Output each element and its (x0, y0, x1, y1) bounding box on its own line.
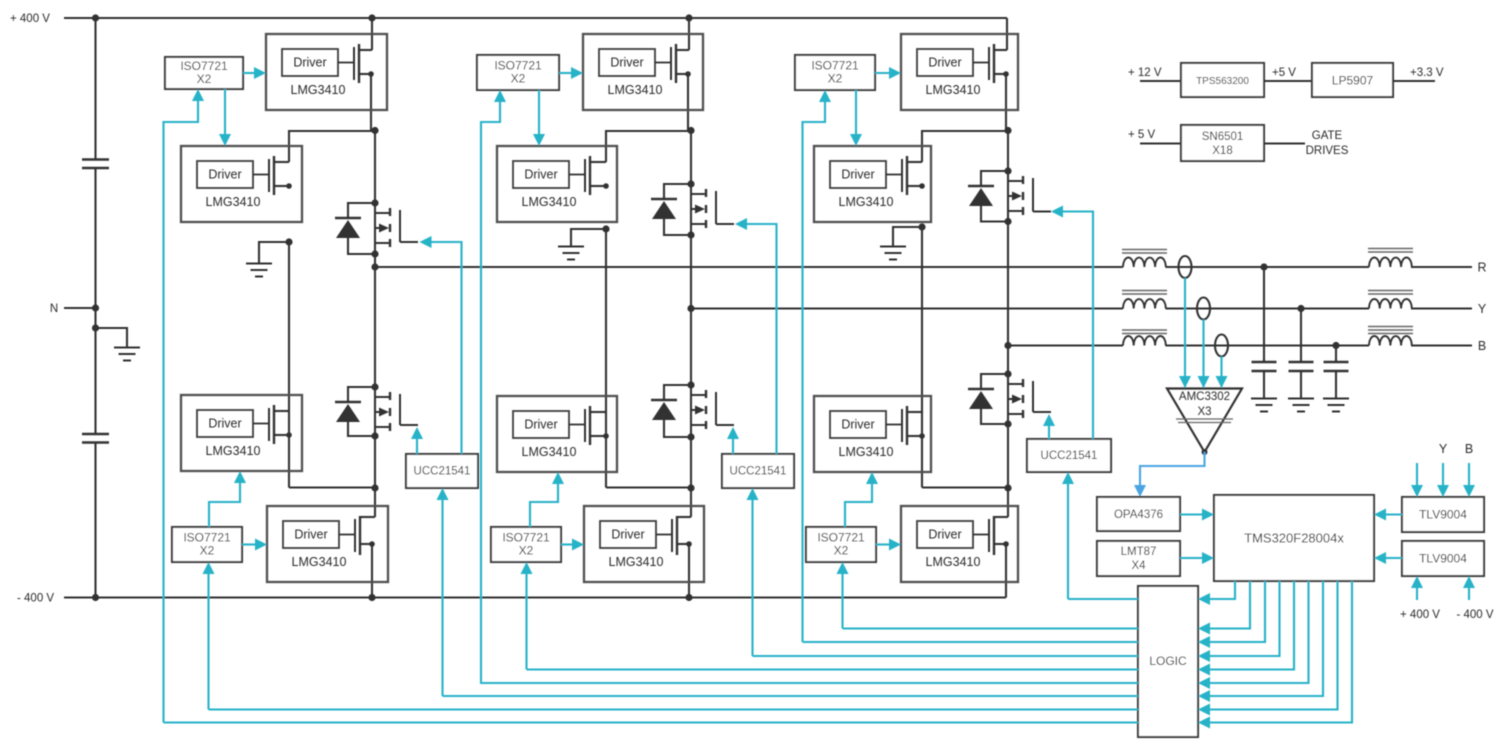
svg-text:AMC3302: AMC3302 (1179, 391, 1230, 403)
svg-text:ISO7721: ISO7721 (183, 531, 231, 545)
wire leg2 LMG2 drain lead (590, 161, 606, 163)
wire SN6501 to gate drives (1264, 142, 1305, 144)
wire leg1 LMG1 source lead (359, 73, 371, 75)
wire leg3 phase node to lower switch (1007, 346, 1009, 375)
digital isolator ISO7721 X2 (leg 3) (806, 527, 876, 562)
wire LOGIC to ISO7721-bottom (leg 2) (525, 571, 527, 670)
junction leg2 LMG3 source corner (603, 433, 609, 439)
svg-text:ISO7721: ISO7721 (494, 59, 542, 73)
junction leg1 LMG2 source corner (286, 183, 292, 189)
wire ISO7721-bottom output to LMG4 (leg 3) (876, 543, 892, 545)
wire leg1 ground stub (259, 242, 289, 264)
wire UCC21541 to upper gate (leg 2) (744, 224, 777, 454)
wire leg2 upper switch to phase node (690, 235, 692, 309)
current sensor CT1 (phase R) (1179, 256, 1192, 278)
svg-text:Driver: Driver (294, 528, 327, 542)
svg-text:X4: X4 (1131, 560, 1146, 572)
wire TLV9004-bottom to MCU (1382, 557, 1402, 559)
wire leg3 LMG3 source lead (907, 435, 922, 437)
gate driver U LMG3410 (high-side) leg 1 - outer box (266, 34, 387, 110)
GaN FET Q (upper) leg 1 (389, 208, 391, 216)
svg-text:+3.3 V: +3.3 V (1410, 67, 1444, 79)
junction leg1 LMG3 source corner (286, 432, 292, 438)
wire CT2 to AMC3302 (1202, 320, 1204, 388)
svg-text:+ 400 V: + 400 V (10, 13, 50, 25)
svg-text:- 400 V: - 400 V (1456, 609, 1493, 621)
wire UCC21541 to upper gate (leg 1) (429, 242, 462, 454)
wire leg2 LMG1 source lead (676, 73, 688, 75)
svg-text:LMG3410: LMG3410 (522, 445, 577, 459)
wire leg3 ground stub (893, 227, 922, 247)
junction leg1 half-bridge upper node (371, 127, 378, 134)
wire LOGIC gate bus to UCC21541 leg1 (443, 695, 1139, 697)
wire leg3 LMG1 source lead (994, 73, 1006, 75)
wire phase Y line (691, 307, 1123, 309)
wire -400V bus (64, 596, 1006, 598)
transformer driver U SN6501 X18 (1181, 125, 1264, 161)
wire leg2 mid rail (605, 229, 607, 488)
wire ISO7721-top output to LMG1 (leg 1) (243, 72, 257, 74)
wire UCC21541 to upper gate (leg 3) (1060, 212, 1093, 440)
capacitor C_dc1 (top DC-link) (82, 158, 109, 160)
anti-parallel diode D (upper) leg 1 (348, 203, 375, 218)
svg-text:OPA4376: OPA4376 (1114, 509, 1163, 521)
junction filter cap x=1264 (1260, 263, 1267, 270)
svg-text:UCC21541: UCC21541 (730, 466, 787, 478)
wire N ground stub (96, 328, 128, 348)
junction node (lower switch source) leg 2 (687, 433, 694, 440)
LMG3410 internal Driver block (513, 161, 569, 188)
inductor L3b (phase B output) (1369, 336, 1412, 346)
regulator U LP5907 (1312, 63, 1393, 97)
junction node (upper switch source) leg 3 (1004, 218, 1011, 225)
ground (filter cap x=1264) (1251, 398, 1277, 400)
junction node (upper switch source) leg 1 (371, 250, 378, 257)
svg-text:Driver: Driver (610, 56, 643, 70)
wire LOGIC to UCC21541 (leg 1) (441, 497, 443, 696)
capacitor C filter at x=1301 (1300, 309, 1302, 362)
wire TPS563200 to LP5907 (1264, 80, 1312, 82)
junction leg2 phase node (687, 305, 694, 312)
wire +12V input (1140, 80, 1181, 82)
junction leg2 LMG1 source corner (685, 71, 691, 77)
wire leg2 LMG1 drain to +400V bus (688, 18, 690, 50)
svg-text:B: B (1465, 442, 1473, 456)
gate driver U LMG3410 (low-side) leg 3 - outer box (901, 506, 1018, 582)
svg-text:Y: Y (1478, 302, 1487, 316)
svg-text:LMG3410: LMG3410 (839, 195, 894, 209)
svg-text:X2: X2 (197, 72, 212, 86)
junction node (lower switch drain) leg 1 (371, 383, 378, 390)
ground (neutral) (114, 347, 140, 349)
gate driver U LMG3410 (low-side) leg 2 - outer box (584, 506, 704, 582)
wire leg1 LMG1 source down (370, 74, 372, 131)
wire +5V input to SN6501 (1140, 142, 1181, 144)
GaN FET Q (lower) leg 1 (389, 392, 391, 400)
wire LOGIC gate bus to ISO7721-bottom leg3 (843, 627, 1139, 629)
LMG3410 internal GaN FET symbol (253, 174, 269, 176)
ground (leg 1 mid) (246, 263, 272, 265)
wire ISO7721-bottom output up to LMG3 (leg 2) (530, 481, 558, 527)
wire leg1 LMG2 source lead (274, 185, 289, 187)
svg-text:LMG3410: LMG3410 (291, 83, 346, 97)
junction leg2 mid-rail ground tap (602, 225, 609, 232)
wire -400V sense into TLV9004 (1468, 584, 1470, 600)
svg-text:DRIVES: DRIVES (1306, 145, 1349, 157)
ground (filter cap x=1336) (1323, 398, 1349, 400)
GaN FET Q (upper) leg 3 (1022, 176, 1024, 184)
wire B sense into TLV9004 (1468, 463, 1470, 489)
wire LOGIC to UCC21541 (leg 3) (1067, 481, 1069, 599)
wire leg2 LMG1 source down (687, 74, 689, 131)
anti-parallel diode D (upper) leg 3 (981, 171, 1008, 186)
wire LOGIC gate bus to ISO7721-top leg1 (164, 721, 1139, 723)
gate driver U LMG3410 (lower mid) leg 2 - outer box (497, 396, 617, 472)
wire leg3 LMG1 drain to +400V bus (1006, 18, 1008, 50)
wire leg1 lower switch to lower node (374, 436, 376, 488)
wire LOGIC gate bus to ISO7721-bottom leg1 (209, 708, 1139, 710)
svg-text:LMG3410: LMG3410 (926, 555, 981, 569)
wire LOGIC gate bus to ISO7721-bottom leg2 (527, 668, 1139, 670)
LMG3410 internal GaN FET symbol (253, 423, 269, 425)
gate driver U LMG3410 (high-side) leg 2 - outer box (583, 34, 703, 110)
svg-text:Driver: Driver (208, 417, 241, 431)
svg-text:TLV9004: TLV9004 (1419, 552, 1467, 566)
anti-parallel diode D (lower) leg 1 (348, 387, 375, 402)
wire leg2 LMG3 drain lead (590, 411, 606, 413)
inductor L2b (phase Y output) (1369, 299, 1412, 308)
wire LOGIC gate bus to ISO7721-top leg2 (480, 682, 1138, 684)
svg-text:Driver: Driver (208, 168, 241, 182)
wire CT1 to AMC3302 (1184, 278, 1186, 387)
junction node (lower switch drain) leg 2 (687, 381, 694, 388)
junction leg1 mid-rail ground tap (285, 238, 292, 245)
anti-parallel diode D (lower) leg 2 (664, 385, 691, 400)
LMG3410 internal GaN FET symbol (886, 424, 902, 426)
svg-text:Driver: Driver (841, 418, 874, 432)
svg-text:LMG3410: LMG3410 (926, 83, 981, 97)
svg-text:ISO7721: ISO7721 (502, 531, 550, 545)
digital isolator ISO7721 X2 (leg 2) (477, 55, 559, 90)
svg-text:LMG3410: LMG3410 (522, 195, 577, 209)
anti-parallel diode D (upper) leg 2 (664, 184, 691, 199)
junction leg3 phase node (1004, 342, 1011, 349)
wire R sense into TLV9004 (1416, 463, 1418, 489)
junction N-ground tap (92, 324, 99, 331)
junction leg3 lower node (1004, 484, 1011, 491)
junction node (lower switch source) leg 3 (1004, 420, 1011, 427)
wire N stub (64, 307, 96, 309)
svg-text:X18: X18 (1212, 145, 1232, 157)
wire CT3 to AMC3302 (1220, 357, 1222, 388)
anti-parallel diode D (lower) leg 3 (981, 374, 1008, 389)
wire LOGIC to ISO7721-bottom (leg 3) (841, 571, 843, 629)
svg-text:X2: X2 (828, 72, 843, 86)
wire leg2 upper node to upper switch (690, 131, 692, 185)
junction leg2 LMG2 source corner (603, 183, 609, 189)
junction leg2 half-bridge upper node (687, 127, 694, 134)
inductor L1b (phase R output) (1369, 258, 1412, 268)
regulator U TPS563200 (1181, 63, 1264, 97)
wire DC-link left rail (94, 18, 96, 159)
wire +400V bus (64, 17, 1007, 19)
wire OPA4376 to MCU (1180, 513, 1206, 515)
LMG3410 internal Driver block (830, 411, 886, 438)
junction leg2 +400V (685, 14, 692, 21)
wire leg1 LMG1 drain lead (359, 49, 372, 51)
gate driver U UCC21541 (leg 3) (1027, 439, 1111, 472)
junction leg1 phase node (371, 263, 378, 270)
wire LOGIC to ISO7721-bottom (leg 1) (207, 571, 209, 710)
wire ISO7721-top output down to LMG2 (leg 1) (224, 89, 226, 136)
wire leg3 LMG2 source lead (907, 185, 922, 187)
svg-text:B: B (1478, 339, 1486, 353)
ground (leg 3 mid) (880, 246, 906, 248)
wire (lower) switch drain-source rail leg 3 (1007, 374, 1009, 424)
ground (filter cap x=1301) (1288, 398, 1314, 400)
junction node (upper switch source) leg 2 (687, 231, 694, 238)
GaN FET Q (lower) leg 3 (1022, 379, 1024, 387)
LMG3410 internal GaN FET symbol (886, 174, 902, 176)
wire phase B line (1008, 344, 1123, 346)
wire (upper) switch drain-source rail leg 3 (1007, 171, 1009, 222)
LMG3410 internal Driver block (917, 49, 973, 76)
wire MCU PWM 4 to LOGIC (1207, 581, 1280, 656)
svg-text:LP5907: LP5907 (1332, 74, 1374, 88)
wire (upper) switch drain-source rail leg 2 (690, 184, 692, 235)
wire leg2 LMG1 drain lead (676, 49, 689, 51)
wire LOGIC to ISO7721-top (leg 1) (164, 98, 199, 723)
wire leg2 LMG4 source to -400V bus (677, 543, 689, 545)
LMG3410 internal Driver block (599, 49, 655, 76)
svg-text:SN6501: SN6501 (1202, 131, 1244, 143)
wire leg1 upper node to upper switch (374, 131, 376, 204)
LMG3410 internal GaN FET symbol (973, 534, 989, 536)
junction leg3 half-bridge upper node (1004, 127, 1011, 134)
svg-text:R: R (1477, 261, 1486, 275)
svg-text:N: N (50, 303, 58, 315)
junction filter cap x=1336 (1332, 342, 1339, 349)
op-amp U TLV9004 (bottom) (1402, 541, 1484, 576)
LMG3410 internal Driver block (197, 410, 253, 437)
svg-text:Y: Y (1439, 442, 1448, 456)
junction -400V/rail (92, 594, 99, 601)
LMG3410 internal Driver block (282, 49, 338, 76)
LMG3410 internal Driver block (830, 161, 886, 188)
op-amp U TLV9004 (top) (1402, 497, 1484, 532)
digital isolator ISO7721 X2 (leg 2) (491, 527, 561, 562)
LMG3410 internal GaN FET symbol (655, 62, 671, 64)
svg-text:LMG3410: LMG3410 (609, 555, 664, 569)
GaN FET Q (upper) leg 2 (705, 189, 707, 197)
junction node (lower switch source) leg 1 (371, 432, 378, 439)
digital isolator ISO7721 X2 (leg 1) (165, 57, 243, 89)
junction leg3 LMG3 source corner (919, 433, 925, 439)
wire leg3 LMG2 drain lead (907, 161, 922, 163)
wire leg1 LMG4 source to -400V bus (360, 543, 372, 545)
wire ISO7721-top output down to LMG2 (leg 3) (855, 90, 857, 136)
svg-text:X2: X2 (834, 544, 849, 558)
wire leg2 LMG3 source lead (590, 435, 606, 437)
wire MCU PWM 6 to LOGIC (1207, 581, 1309, 683)
svg-text:LMG3410: LMG3410 (839, 445, 894, 459)
wire LMT87 to MCU (1180, 557, 1206, 559)
svg-text:Driver: Driver (524, 168, 557, 182)
wire LOGIC gate bus to UCC21541 leg2 (753, 655, 1139, 657)
junction leg3 LMG1 source corner (1003, 71, 1009, 77)
wire UCC21541 to lower gate (leg 3) (1048, 423, 1050, 439)
op-amp U OPA4376 (1097, 497, 1180, 531)
current sensor CT3 (phase B) (1215, 335, 1228, 357)
inductor L3a (phase B filter) (1123, 336, 1166, 346)
svg-text:LMG3410: LMG3410 (206, 195, 261, 209)
svg-text:GATE: GATE (1312, 130, 1343, 142)
wire UCC21541 to lower gate (leg 2) (732, 436, 734, 454)
logic block LOGIC (1138, 586, 1198, 737)
LMG3410 internal GaN FET symbol (973, 62, 989, 64)
GaN FET Q (lower) leg 2 (705, 390, 707, 398)
wire ISO7721-bottom output to LMG4 (leg 2) (561, 543, 575, 545)
junction leg3 LMG2 source corner (919, 183, 925, 189)
svg-text:Driver: Driver (611, 528, 644, 542)
gate driver U LMG3410 (upper mid) leg 2 - outer box (497, 146, 617, 222)
wire UCC21541 to lower gate (leg 1) (416, 436, 418, 454)
wire leg1 LMG3 source lead (274, 434, 289, 436)
wire leg2 LMG2 source lead (590, 185, 606, 187)
svg-text:+ 5 V: + 5 V (1128, 129, 1156, 141)
wire ISO7721-top output down to LMG2 (leg 2) (538, 90, 540, 136)
wire leg1 LMG4 drain riser (374, 488, 376, 517)
wire MCU PWM 5 to LOGIC (1207, 581, 1294, 670)
gate driver U UCC21541 (leg 2) (722, 454, 794, 488)
gate driver U LMG3410 (upper mid) leg 3 - outer box (814, 146, 931, 222)
wire leg1 LMG2 drain lead (274, 161, 289, 163)
wire ISO7721-bottom output up to LMG3 (leg 3) (845, 481, 872, 527)
junction +400V/rail (92, 14, 99, 21)
svg-text:TMS320F28004x: TMS320F28004x (1244, 531, 1344, 546)
LMG3410 internal GaN FET symbol (339, 534, 355, 536)
svg-text:Driver: Driver (524, 418, 557, 432)
wire MCU PWM 8 to LOGIC (1207, 581, 1338, 710)
svg-text:LMG3410: LMG3410 (608, 83, 663, 97)
wire leg3 LMG4 source to -400V bus (994, 543, 1006, 545)
svg-text:Driver: Driver (293, 56, 326, 70)
svg-text:UCC21541: UCC21541 (414, 466, 471, 478)
LMG3410 internal Driver block (600, 521, 656, 548)
junction node N (92, 304, 99, 311)
wire +400V sense into TLV9004 (1416, 584, 1418, 600)
svg-text:ISO7721: ISO7721 (180, 59, 228, 73)
junction leg2 LMG4 source corner (686, 541, 692, 547)
gate driver U LMG3410 (upper mid) leg 1 - outer box (181, 146, 302, 222)
junction leg3 LMG4 source corner (1003, 541, 1009, 547)
junction leg3 mid-rail ground tap (918, 223, 925, 230)
wire leg3 LMG3 drain lead (907, 411, 922, 413)
wire leg1 LMG2 drain to node (289, 131, 375, 162)
svg-text:+ 12 V: + 12 V (1128, 67, 1162, 79)
wire leg3 lower switch to lower node (1007, 424, 1009, 488)
wire MCU PWM 9 to LOGIC (1207, 581, 1352, 723)
svg-text:LMT87: LMT87 (1121, 546, 1157, 558)
wire ISO7721-bottom output to LMG4 (leg 1) (242, 543, 258, 545)
wire leg2 lower switch to lower node (690, 437, 692, 488)
inductor L2a (phase Y filter) (1123, 299, 1166, 308)
junction leg1 -400V (368, 594, 375, 601)
wire LOGIC to UCC21541 (leg 2) (751, 497, 753, 656)
wire LP5907 output (1393, 80, 1435, 82)
wire LOGIC gate bus to ISO7721-top leg3 (803, 641, 1139, 643)
wire leg3 mid rail (921, 227, 923, 488)
svg-text:X3: X3 (1197, 406, 1211, 418)
wire leg3 LMG1 source down (1005, 74, 1007, 131)
svg-text:+5 V: +5 V (1272, 67, 1296, 79)
svg-text:LMG3410: LMG3410 (292, 555, 347, 569)
inductor L1a (phase R filter) (1123, 258, 1166, 268)
svg-text:TLV9004: TLV9004 (1419, 508, 1467, 522)
LMG3410 internal GaN FET symbol (338, 62, 354, 64)
isolated amplifier U AMC3302 X3 (triangle) (1167, 389, 1242, 453)
svg-text:X2: X2 (200, 544, 215, 558)
digital isolator ISO7721 X2 (leg 3) (795, 55, 875, 90)
ground (leg 2 mid) (558, 246, 584, 248)
wire LOGIC to ISO7721-top (leg 3) (803, 99, 826, 642)
wire MCU PWM 2 to LOGIC (1207, 581, 1250, 629)
capacitor C_dc2 (bottom DC-link) (82, 433, 109, 435)
wire ISO7721-top output to LMG1 (leg 2) (559, 72, 574, 74)
current sensor CT2 (phase Y) (1197, 298, 1210, 320)
gate driver U LMG3410 (high-side) leg 3 - outer box (901, 34, 1018, 110)
svg-text:LOGIC: LOGIC (1149, 654, 1187, 668)
wire LOGIC gate bus to UCC21541 leg3 (1068, 598, 1138, 600)
wire LOGIC to ISO7721-top (leg 2) (481, 99, 500, 683)
wire leg1 upper switch to phase node (374, 254, 376, 267)
wire leg2 ground stub (571, 229, 606, 247)
junction leg1 LMG1 source corner (368, 71, 374, 77)
wire ISO7721-bottom output up to LMG3 (leg 1) (209, 480, 240, 527)
svg-text:Driver: Driver (841, 168, 874, 182)
junction filter cap x=1301 (1297, 305, 1304, 312)
capacitor C filter at x=1336 (1335, 346, 1337, 362)
junction node (upper switch drain) leg 3 (1004, 167, 1011, 174)
MCU U TMS320F28004x (1214, 495, 1374, 581)
junction node (lower switch drain) leg 3 (1004, 370, 1011, 377)
wire leg3 upper node to upper switch (1007, 131, 1009, 172)
wire (upper) switch drain-source rail leg 1 (374, 203, 376, 254)
wire ISO7721-top output to LMG1 (leg 3) (875, 72, 892, 74)
gate driver U LMG3410 (lower mid) leg 1 - outer box (181, 395, 302, 471)
wire leg1 LMG1 drain to +400V bus (371, 18, 373, 50)
wire MCU PWM 7 to LOGIC (1207, 581, 1323, 696)
LMG3410 internal GaN FET symbol (656, 534, 672, 536)
LMG3410 internal Driver block (197, 161, 253, 188)
wire MCU PWM 1 to LOGIC (1207, 581, 1235, 599)
junction leg1 LMG4 source corner (369, 541, 375, 547)
wire leg2 phase node to lower switch (690, 309, 692, 386)
wire leg1 LMG3 drain lead (274, 410, 289, 412)
wire leg1 phase node to lower switch (374, 267, 376, 387)
svg-text:X2: X2 (519, 544, 534, 558)
LMG3410 internal GaN FET symbol (569, 174, 585, 176)
wire leg2 LMG2 drain to node (606, 131, 691, 162)
svg-text:+ 400 V: + 400 V (1400, 609, 1440, 621)
wire (lower) switch drain-source rail leg 2 (690, 385, 692, 437)
svg-text:Driver: Driver (928, 56, 961, 70)
junction node (upper switch drain) leg 1 (371, 199, 378, 206)
junction leg2 lower node (687, 484, 694, 491)
digital isolator ISO7721 X2 (leg 1) (172, 527, 242, 562)
wire Y sense into TLV9004 (1442, 463, 1444, 489)
wire MCU PWM 3 to LOGIC (1207, 581, 1265, 642)
